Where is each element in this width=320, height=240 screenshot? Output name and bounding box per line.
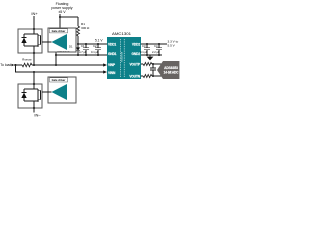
wire IN- stem xyxy=(33,108,35,113)
wire GND2 rail xyxy=(141,54,162,56)
svg-text:C4: C4 xyxy=(154,44,158,48)
node C3 bottom xyxy=(146,54,148,56)
resistor RSENSE xyxy=(22,63,32,67)
wire VOUTN lead xyxy=(141,75,143,77)
ground symbol xyxy=(147,55,154,60)
isolation barrier dashes xyxy=(120,39,124,77)
arrow into VINN xyxy=(103,70,107,73)
node C4 bottom xyxy=(158,54,160,56)
label D1 BZT52C5V1 xyxy=(58,45,73,54)
label 3.3 V to 5.5 V xyxy=(168,40,179,48)
wire VDD2 rail xyxy=(141,43,167,45)
zener diode D1 xyxy=(76,44,80,55)
label To load xyxy=(0,63,11,67)
transistor box Q1 (MOSFET with gate zener) xyxy=(18,28,42,54)
node Q2 tap xyxy=(33,71,35,73)
node kelvin left xyxy=(15,64,17,66)
svg-text:4.7 µF: 4.7 µF xyxy=(79,50,87,54)
node C3 top xyxy=(146,43,148,45)
svg-text:VDD2: VDD2 xyxy=(132,43,140,47)
wire VOUTP lead xyxy=(141,63,143,65)
svg-text:0.1 µF: 0.1 µF xyxy=(91,50,99,54)
svg-text:IN–: IN– xyxy=(34,113,41,118)
node Q1 source tap xyxy=(33,64,35,66)
wire R3 to ADC xyxy=(152,75,162,77)
node supply junction xyxy=(59,16,61,18)
node sense line tap xyxy=(55,64,57,66)
label C2 0.1 uF xyxy=(91,44,99,54)
svg-text:5.1 V: 5.1 V xyxy=(95,39,103,43)
label C3 0.1 uF xyxy=(140,44,148,54)
wire To load arrow xyxy=(12,64,15,67)
wire R1 bottom lead to VDD1 rail xyxy=(77,36,79,44)
wire R1 top lead xyxy=(77,17,79,26)
svg-text:C2: C2 xyxy=(93,44,97,48)
node VDD1 rail left xyxy=(77,43,79,45)
label C4 2.2 uF xyxy=(152,44,160,54)
node C1 bottom xyxy=(85,54,87,56)
resistor R2 xyxy=(143,63,152,66)
label C1 4.7 uF xyxy=(79,44,87,54)
svg-text:C3: C3 xyxy=(142,44,146,48)
wire U2 output to Q1 gate xyxy=(42,41,52,43)
svg-text:5.5 V: 5.5 V xyxy=(168,44,176,48)
svg-text:Gate driver: Gate driver xyxy=(52,78,66,82)
svg-text:D1: D1 xyxy=(69,45,73,49)
wire IN+ stem xyxy=(33,16,35,29)
svg-text:AMC1301: AMC1301 xyxy=(112,32,131,36)
resistor R1 xyxy=(77,26,80,36)
node C2 bottom xyxy=(97,54,99,56)
svg-text:0.1 µF: 0.1 µF xyxy=(140,50,148,54)
label IN- xyxy=(34,113,41,118)
svg-text:VOUTN: VOUTN xyxy=(129,75,140,79)
capacitor C2 xyxy=(95,44,101,55)
svg-text:±5 V: ±5 V xyxy=(58,10,66,14)
wire Q2 drain to kelvin line xyxy=(33,72,35,84)
arrow into VINP xyxy=(103,63,107,66)
svg-text:ISOLATION: ISOLATION xyxy=(120,51,123,62)
node C2 top xyxy=(97,43,99,45)
label: Floating power supply ±5 V xyxy=(51,2,72,14)
wire GND1 rail drop to sense node xyxy=(55,52,57,65)
label AMC1301 xyxy=(112,32,131,36)
capacitor C1 xyxy=(83,44,89,55)
label RSENSE xyxy=(22,57,32,61)
node C4 top xyxy=(158,43,160,45)
wire kelvin drop xyxy=(16,65,104,72)
op-amp U3 gate driver (bottom buffer) xyxy=(48,77,76,103)
svg-text:300 Ω: 300 Ω xyxy=(81,26,90,30)
capacitor C4 xyxy=(156,44,162,55)
node D1 bottom xyxy=(77,54,79,56)
node GND1 rail left xyxy=(55,54,57,56)
svg-text:GND2: GND2 xyxy=(132,52,141,56)
svg-text:IN+: IN+ xyxy=(31,11,38,16)
svg-text:2.2 µF: 2.2 µF xyxy=(152,50,160,54)
svg-text:14-bit ADC: 14-bit ADC xyxy=(164,71,180,75)
svg-text:VOUTP: VOUTP xyxy=(130,63,141,67)
wire sense line left xyxy=(14,64,22,66)
label IN+ xyxy=(31,11,38,16)
wire GND1 rail xyxy=(56,54,107,56)
wire sense line to VINP xyxy=(32,64,104,66)
wire Q1 source to sense line xyxy=(33,53,35,65)
capacitor C5 xyxy=(150,64,156,76)
resistor R3 xyxy=(143,75,152,78)
wire supply horizontal to R1 xyxy=(60,16,78,18)
ADC tag ADS8353 14-bit ADC xyxy=(157,61,179,79)
label R1 300 ohm xyxy=(81,22,90,30)
node filter cap top xyxy=(152,63,154,65)
wire supply vertical into gate driver U2 xyxy=(59,14,61,28)
svg-text:Gate driver: Gate driver xyxy=(52,29,66,33)
svg-text:VDD1: VDD1 xyxy=(108,43,116,47)
transistor box Q2 (MOSFET with gate zener) xyxy=(18,83,42,109)
wire R2 to ADC xyxy=(152,63,162,65)
wire VDD1 rail xyxy=(78,43,107,45)
svg-text:GND1: GND1 xyxy=(108,52,117,56)
capacitor C3 xyxy=(144,44,150,55)
svg-text:C1: C1 xyxy=(81,44,85,48)
label 5.1 V xyxy=(95,39,103,43)
svg-text:To load: To load xyxy=(0,63,11,67)
node filter cap bottom xyxy=(152,75,154,77)
op-amp U2 gate driver (top buffer) xyxy=(48,28,76,52)
svg-text:VINN: VINN xyxy=(108,71,116,75)
wire U3 output to Q2 gate xyxy=(42,91,52,93)
svg-text:VINP: VINP xyxy=(108,63,116,67)
IC U1 isolated amplifier xyxy=(107,37,141,79)
svg-text:ADS8353: ADS8353 xyxy=(164,66,178,70)
node C1 top xyxy=(85,43,87,45)
